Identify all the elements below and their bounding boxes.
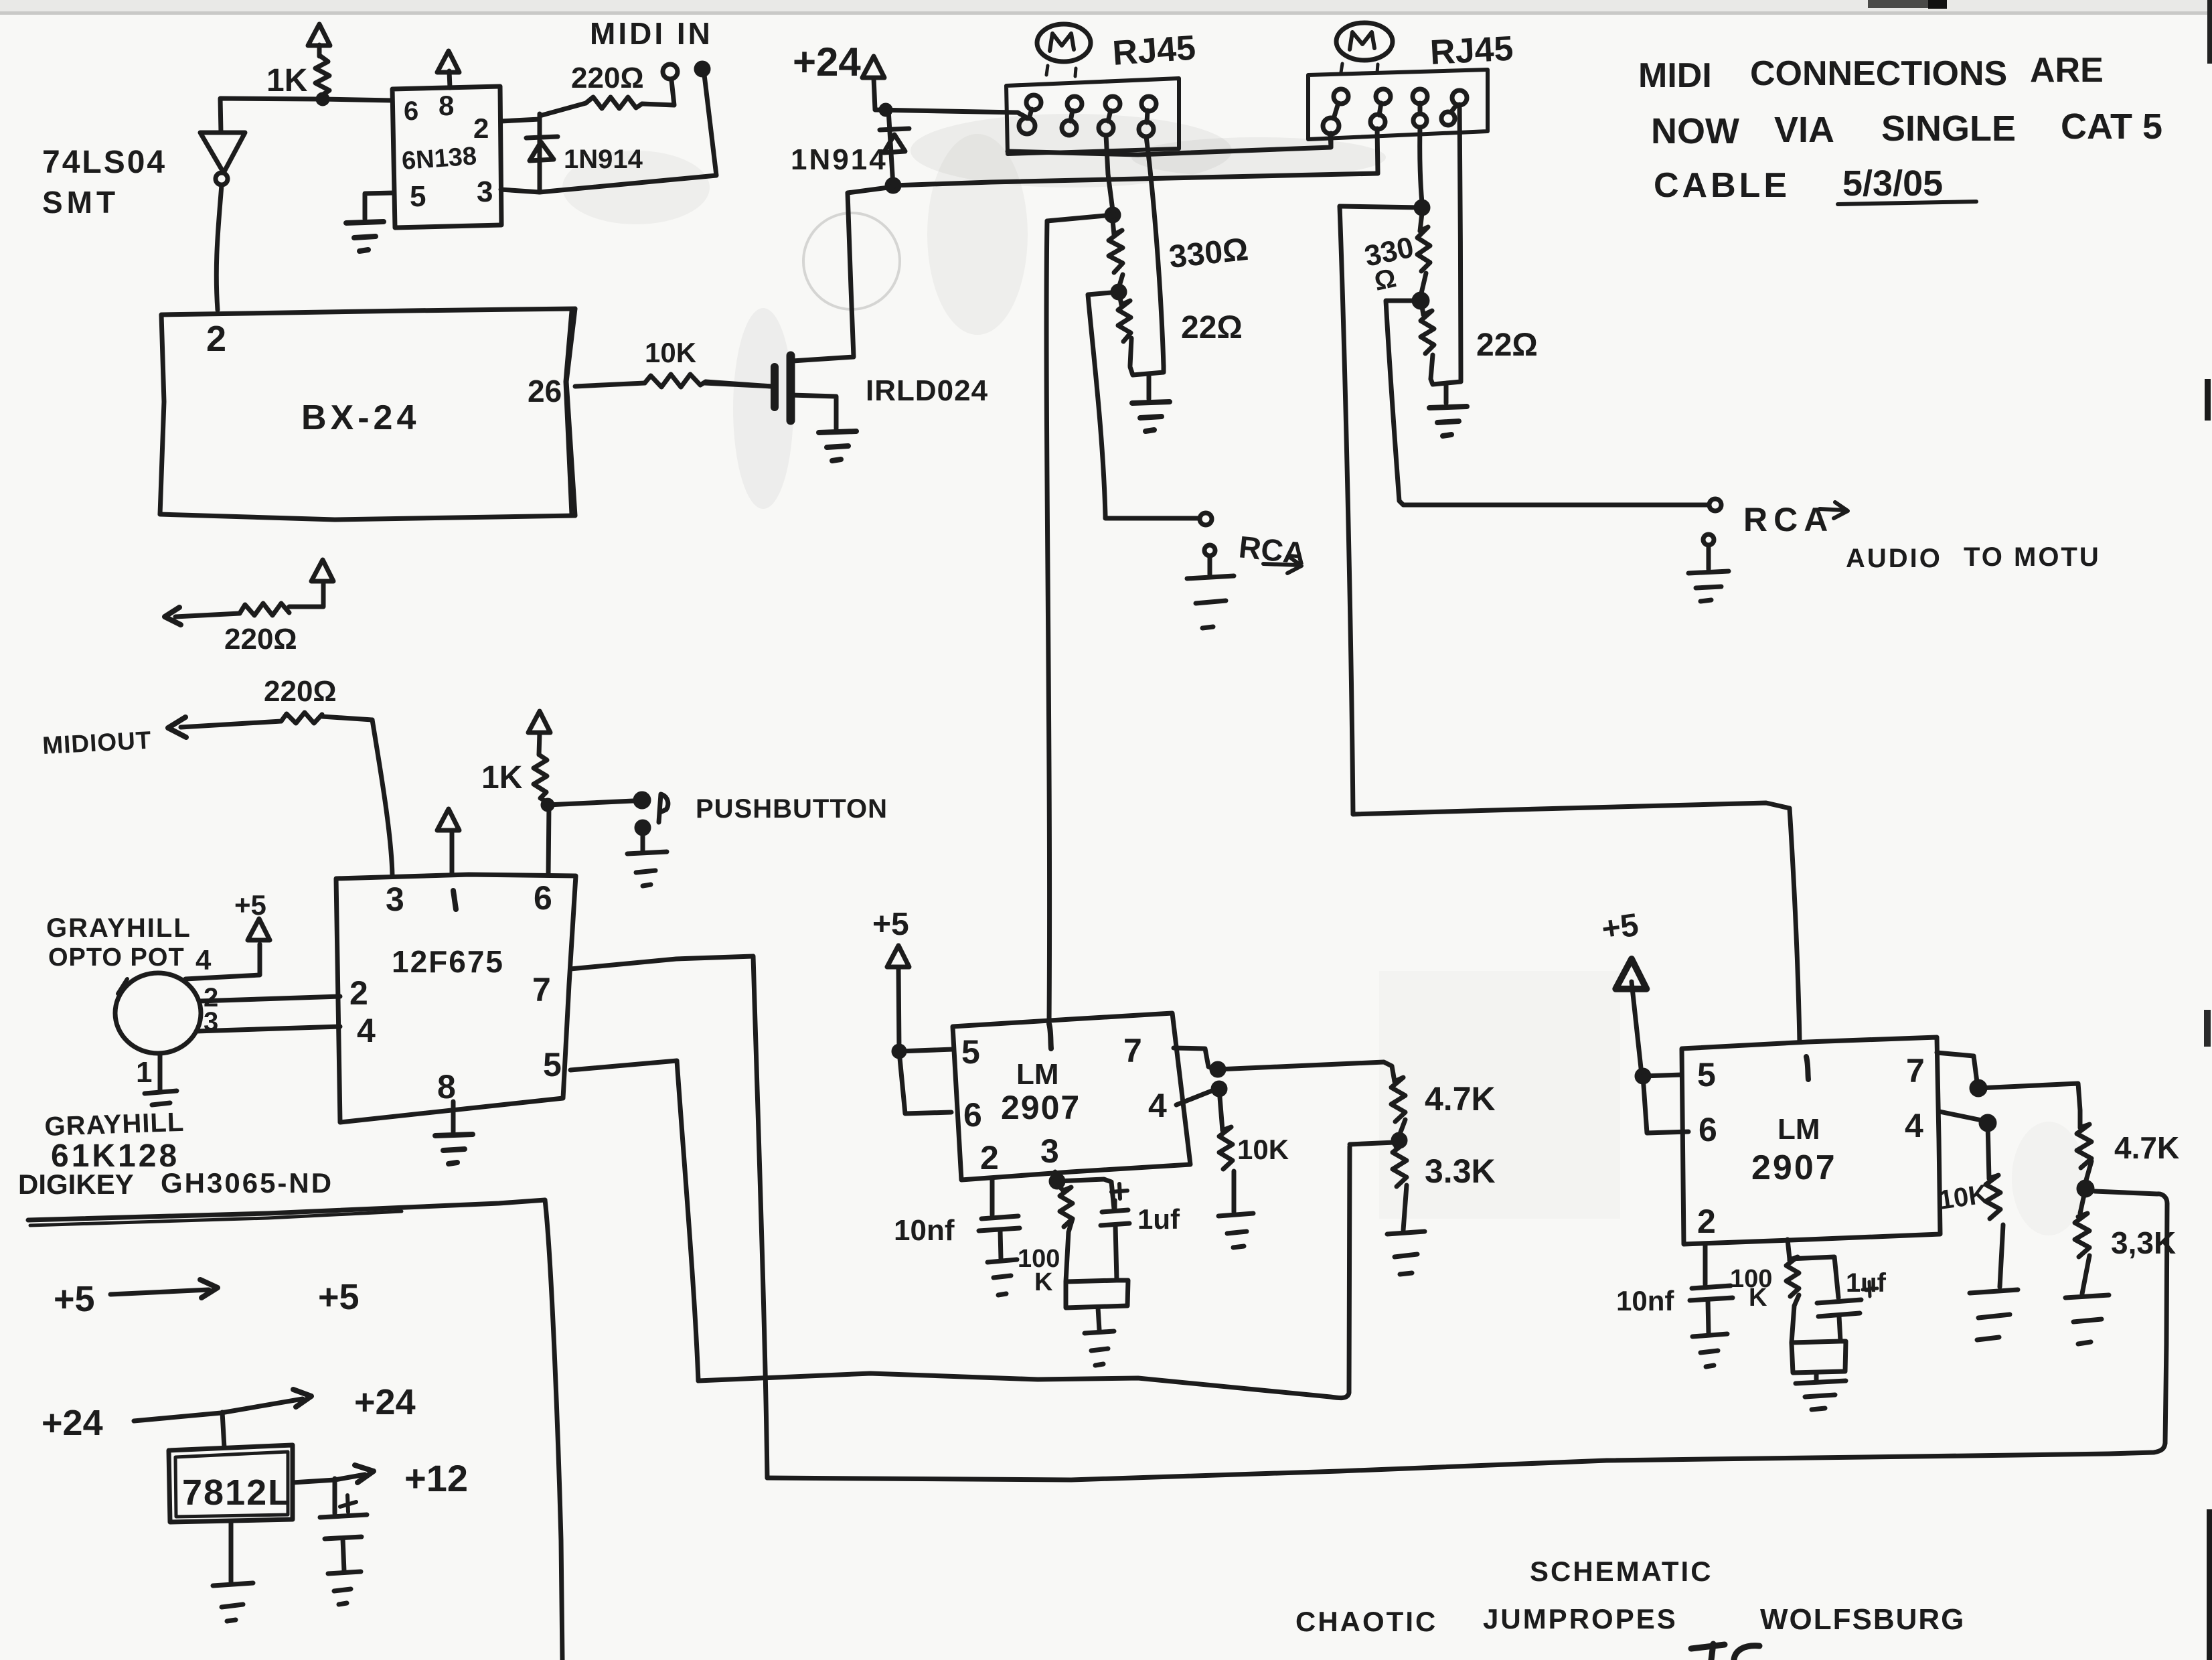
svg-text:ARE: ARE — [2030, 51, 2104, 90]
svg-text:6: 6 — [404, 96, 418, 126]
svg-text:5: 5 — [410, 180, 426, 213]
svg-text:22Ω: 22Ω — [1476, 327, 1538, 363]
svg-text:7: 7 — [532, 971, 551, 1008]
svg-text:+24: +24 — [793, 40, 861, 84]
svg-text:4.7K: 4.7K — [1425, 1080, 1496, 1118]
svg-text:1uf: 1uf — [1137, 1203, 1180, 1235]
svg-text:TO: TO — [1964, 542, 2004, 572]
svg-text:74LS04: 74LS04 — [42, 145, 167, 180]
svg-text:2: 2 — [473, 112, 489, 144]
svg-text:MIDI: MIDI — [1638, 56, 1712, 95]
svg-text:Ω: Ω — [1372, 263, 1399, 297]
svg-text:220Ω: 220Ω — [224, 623, 297, 656]
svg-text:5: 5 — [543, 1046, 562, 1083]
svg-text:WOLFSBURG: WOLFSBURG — [1760, 1603, 1965, 1636]
svg-text:12F675: 12F675 — [392, 944, 504, 979]
svg-text:K: K — [1034, 1268, 1053, 1296]
svg-text:2: 2 — [349, 974, 368, 1012]
svg-text:K: K — [1749, 1284, 1767, 1312]
svg-text:NOW: NOW — [1651, 111, 1739, 151]
svg-text:7812L: 7812L — [182, 1473, 291, 1513]
svg-text:RCA: RCA — [1237, 529, 1308, 571]
svg-text:10K: 10K — [1937, 1179, 1990, 1215]
svg-text:IRLD024: IRLD024 — [866, 374, 988, 407]
svg-text:3.3K: 3.3K — [1425, 1152, 1496, 1190]
svg-text:7: 7 — [1123, 1032, 1142, 1069]
svg-text:1K: 1K — [266, 63, 308, 98]
svg-text:CABLE: CABLE — [1654, 166, 1790, 205]
svg-text:+5: +5 — [1599, 907, 1641, 948]
svg-text:RJ45: RJ45 — [1111, 28, 1197, 73]
svg-text:CAT 5: CAT 5 — [2061, 106, 2162, 147]
svg-text:3: 3 — [204, 1007, 218, 1037]
svg-text:+5: +5 — [318, 1277, 360, 1317]
svg-text:26: 26 — [528, 374, 562, 408]
svg-text:5: 5 — [1697, 1056, 1716, 1093]
svg-text:+24: +24 — [42, 1403, 103, 1443]
svg-text:5: 5 — [961, 1033, 980, 1071]
svg-text:LM: LM — [1777, 1113, 1820, 1146]
svg-text:RCA: RCA — [1743, 501, 1834, 538]
svg-text:MIDI IN: MIDI IN — [590, 16, 713, 51]
svg-text:2: 2 — [206, 319, 226, 359]
svg-text:22Ω: 22Ω — [1181, 310, 1243, 346]
svg-text:8: 8 — [437, 1068, 456, 1106]
svg-text:+5: +5 — [872, 907, 909, 942]
svg-text:6N138: 6N138 — [401, 142, 478, 175]
svg-text:330Ω: 330Ω — [1168, 232, 1250, 275]
svg-text:RJ45: RJ45 — [1429, 29, 1514, 72]
svg-text:GH3065-ND: GH3065-ND — [161, 1167, 333, 1199]
svg-text:7: 7 — [1906, 1052, 1925, 1089]
svg-text:3,3K: 3,3K — [2111, 1225, 2176, 1260]
svg-text:2: 2 — [1697, 1203, 1716, 1240]
svg-text:SMT: SMT — [42, 185, 119, 220]
svg-text:DIGIKEY: DIGIKEY — [18, 1168, 134, 1200]
svg-text:4.7K: 4.7K — [2114, 1130, 2179, 1165]
svg-text:SCHEMATIC: SCHEMATIC — [1530, 1556, 1713, 1587]
svg-text:4: 4 — [195, 944, 212, 976]
svg-text:1N914: 1N914 — [564, 145, 643, 174]
svg-text:3: 3 — [477, 175, 493, 208]
svg-text:GRAYHILL: GRAYHILL — [46, 913, 191, 943]
svg-text:VIA: VIA — [1774, 110, 1834, 150]
svg-text:10K: 10K — [645, 337, 696, 368]
svg-text:AUDIO: AUDIO — [1846, 544, 1942, 573]
svg-text:2907: 2907 — [1751, 1148, 1837, 1187]
svg-text:OPTO POT: OPTO POT — [48, 944, 185, 972]
svg-text:10nf: 10nf — [894, 1214, 955, 1247]
svg-text:220Ω: 220Ω — [571, 62, 644, 94]
svg-text:4: 4 — [1148, 1087, 1167, 1124]
svg-text:CHAOTIC: CHAOTIC — [1295, 1606, 1437, 1637]
svg-text:6: 6 — [963, 1096, 982, 1134]
svg-text:GRAYHILL: GRAYHILL — [44, 1108, 185, 1142]
svg-text:+24: +24 — [354, 1382, 416, 1422]
svg-text:10K: 10K — [1237, 1134, 1289, 1165]
svg-text:PUSHBUTTON: PUSHBUTTON — [696, 794, 888, 824]
svg-text:BX-24: BX-24 — [301, 398, 420, 437]
svg-text:1N914: 1N914 — [791, 143, 888, 176]
svg-text:5/3/05: 5/3/05 — [1842, 163, 1943, 204]
svg-text:3: 3 — [1040, 1132, 1059, 1170]
svg-text:220Ω: 220Ω — [264, 675, 337, 708]
svg-text:CONNECTIONS: CONNECTIONS — [1750, 54, 2007, 93]
svg-text:MOTU: MOTU — [2014, 542, 2101, 572]
svg-text:2907: 2907 — [1001, 1089, 1081, 1126]
svg-text:4: 4 — [1905, 1107, 1923, 1144]
svg-text:+12: +12 — [404, 1457, 468, 1499]
svg-text:10nf: 10nf — [1616, 1285, 1674, 1316]
svg-text:+5: +5 — [234, 889, 266, 921]
svg-text:4: 4 — [357, 1012, 376, 1049]
svg-text:2: 2 — [980, 1139, 999, 1177]
svg-text:JUMPROPES: JUMPROPES — [1483, 1603, 1678, 1635]
svg-text:LM: LM — [1016, 1058, 1059, 1091]
svg-text:1: 1 — [136, 1056, 152, 1089]
svg-text:1uf: 1uf — [1846, 1268, 1887, 1298]
svg-text:8: 8 — [439, 90, 454, 121]
svg-text:SINGLE: SINGLE — [1881, 108, 2016, 149]
svg-text:1K: 1K — [481, 760, 523, 796]
svg-text:6: 6 — [534, 879, 552, 917]
svg-text:MIDIOUT: MIDIOUT — [42, 727, 152, 759]
svg-text:+5: +5 — [54, 1279, 95, 1319]
svg-text:3: 3 — [386, 881, 404, 918]
svg-text:6: 6 — [1698, 1111, 1717, 1148]
